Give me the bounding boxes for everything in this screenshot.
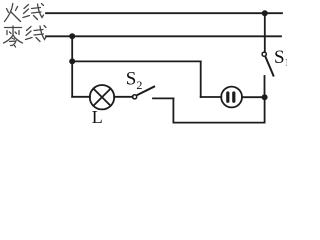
glyph huo — [7, 9, 9, 13]
switch S2 blade — [137, 86, 156, 95]
wire lamp right lead to switch S2 — [114, 96, 133, 98]
wire lamp left lead — [72, 96, 90, 98]
switch S1 pivot — [262, 52, 266, 56]
glyph ling — [5, 27, 22, 29]
wire live line (huoxian) — [46, 12, 282, 14]
node on neutral line — [69, 33, 75, 39]
wire bottom return — [173, 122, 264, 124]
node at branch to socket — [69, 58, 75, 64]
wire right vertical from live line to switch S1 — [264, 13, 266, 52]
glyph xian — [24, 5, 29, 9]
wire after switch S2 — [153, 97, 173, 99]
svg-text:S2: S2 — [126, 69, 143, 93]
switch S1 blade — [265, 57, 273, 77]
socket (two-hole outlet) — [221, 87, 242, 108]
lamp L — [90, 85, 114, 109]
svg-text:S1: S1 — [274, 47, 287, 69]
wire vertical down to socket left lead — [200, 61, 202, 97]
label huoxian (live wire) hand-drawn glyphs — [5, 4, 44, 22]
node D at socket right — [262, 94, 268, 100]
glyph xian — [27, 27, 32, 31]
wire socket left lead — [201, 96, 222, 98]
wire vertical branch from neutral down to lamp — [71, 36, 73, 97]
node on live line — [262, 10, 268, 16]
wire branch to socket (horizontal) — [72, 60, 201, 62]
wire neutral line (lingxian) — [46, 35, 281, 37]
wire switch S1 lower contact — [264, 76, 266, 97]
switch S2 pivot — [133, 95, 137, 99]
wire vertical mid down — [172, 98, 174, 122]
wire vertical up to node D — [264, 97, 266, 122]
svg-text:L: L — [92, 107, 103, 127]
wire socket right lead — [242, 96, 264, 98]
label lingxian (neutral wire) hand-drawn glyphs — [4, 26, 47, 48]
